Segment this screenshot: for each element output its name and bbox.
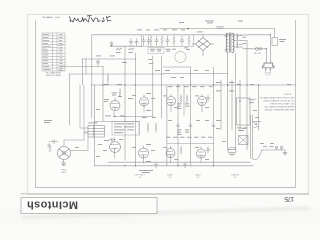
svg-text:3A FUSE: 3A FUSE [254, 52, 262, 55]
wire v-left a [69, 74, 71, 125]
transformer T1 aux windings [236, 34, 238, 48]
capacitor C3 [97, 59, 99, 62]
wire filter left stub [128, 45, 142, 47]
resistor R15 (hanging) [147, 123, 157, 132]
wire v-left e [93, 85, 95, 166]
scattered small value labels [96, 59, 291, 160]
wire switch drop [274, 29, 276, 38]
wire output line [262, 149, 285, 151]
wire B+ top bus [92, 34, 234, 36]
svg-text:RESISTORS 1/2 WATT 10%: RESISTORS 1/2 WATT 10% [271, 103, 295, 106]
svg-text:McIntosh: McIntosh [27, 198, 78, 210]
wire rail 7 [231, 80, 233, 130]
node junction dot [187, 28, 189, 30]
box bias sub [148, 48, 164, 54]
wire ground bus [108, 161, 250, 163]
book page (footer sheet, rotated 180 relative content) [20, 194, 310, 217]
tube V10 rectifier envelope (faint) [175, 51, 186, 62]
wire driver row [163, 66, 191, 68]
resistor R41 [161, 36, 163, 38]
svg-text:V-1: V-1 [139, 177, 142, 179]
resistor R23 [180, 146, 182, 148]
node dot cathode [114, 116, 115, 117]
caption under mid section [139, 170, 153, 173]
svg-text:NOTES:: NOTES: [284, 94, 292, 96]
tube V1 triode [110, 101, 120, 111]
node junction dot 3 [227, 84, 229, 86]
McIntosh title box (upside-down book footer) [21, 198, 157, 214]
wire rail 9 [239, 80, 241, 130]
wire v-mid a [124, 46, 126, 160]
switch S1 [272, 38, 278, 46]
speaker terminal B [280, 146, 283, 149]
wire bridge stubs [202, 35, 204, 56]
table row entries (illegible scan text) [43, 34, 63, 70]
wire AC drop 2 [269, 35, 271, 63]
capacitor C15 [155, 162, 157, 165]
capacitor C10 [207, 95, 209, 98]
wire rail 3 [190, 67, 192, 166]
wire V1 plate row [82, 58, 136, 60]
tube V3 triode [140, 97, 149, 106]
output transformer T2 [237, 98, 251, 125]
capacitor C16 [184, 162, 186, 165]
wire AC drop to plug [265, 49, 267, 63]
wire v-left c [85, 59, 87, 75]
bridge rectifier CR1 [192, 38, 214, 51]
schematic frame border [36, 20, 296, 188]
resistor R16 (hanging) [155, 123, 157, 125]
wire grid line row2 [167, 143, 214, 145]
svg-text:LINE VOLTAGE AT 117V AC 60 CYC: LINE VOLTAGE AT 117V AC 60 CYC [263, 99, 295, 102]
tube V5 output [167, 97, 176, 106]
label R1 R2 [116, 51, 133, 54]
antenna style input symbol [110, 42, 134, 51]
resistor R8 [107, 74, 109, 76]
capacitor C11 [207, 147, 209, 150]
tube V9 bias rectifier [228, 147, 236, 155]
wire drop to strip b [83, 85, 85, 132]
filter row value labels [137, 30, 190, 52]
svg-text:JACK: JACK [62, 171, 68, 174]
capacitor C2 (at V2 grid) [49, 141, 53, 143]
capacitor C21 [148, 36, 150, 40]
capacitor C24 [181, 36, 183, 40]
wire rail 8 [235, 53, 237, 150]
resistor R30 (right of bus) [249, 99, 256, 101]
svg-text:V-4: V-4 [197, 177, 200, 179]
schematic sheet [28, 14, 308, 194]
transformer T1 core [226, 33, 234, 53]
labels above rectifier [179, 21, 243, 33]
wire v-mid d [152, 56, 154, 118]
transformer T1 secondary winding [233, 33, 234, 52]
wire left sub [60, 65, 103, 67]
wire T1 secondary taps [234, 34, 247, 36]
tube V8 output [197, 149, 206, 158]
label stacks between driver tubes [168, 104, 209, 135]
wire strip link a [80, 127, 88, 129]
resistor R21 [180, 95, 182, 97]
wire rail 6 [227, 53, 229, 150]
node dot plug line 2 [270, 34, 271, 35]
tube V2 triode [110, 142, 121, 153]
wire rail 2 [183, 85, 185, 115]
wire AC line to plug [247, 34, 270, 36]
wire rail 10 [246, 41, 248, 151]
wire v-left f [102, 66, 104, 121]
resistor R2 [129, 48, 135, 50]
wire v-left b [81, 59, 83, 85]
wire AC line upper [160, 28, 275, 30]
output line labels [263, 145, 274, 148]
capacitor C23 [167, 36, 169, 40]
resistor R40 [150, 36, 152, 38]
label R30 [249, 101, 254, 104]
wire cathode link [115, 116, 153, 118]
svg-text:VOLTAGES READ WITH VTVM TO GND: VOLTAGES READ WITH VTVM TO GND [260, 96, 295, 99]
parts/voltage table [42, 33, 65, 71]
transformer T1 primary winding [226, 33, 228, 52]
pencil dashes [47, 16, 52, 18]
wire v-mid c [138, 121, 140, 135]
tube V6 output [198, 97, 207, 106]
input terminal strip [88, 126, 105, 138]
cathode stubs under output tubes [114, 106, 202, 164]
box filter row [142, 35, 194, 47]
resistor R22 [186, 95, 188, 97]
wire v-mid b [135, 53, 137, 166]
wire squiggle to terminals [252, 150, 262, 160]
wire driver row 2 [163, 73, 228, 75]
tube V7 output [166, 149, 175, 158]
capacitor C4 marks above V1 [112, 93, 118, 96]
tube V4 triode [139, 148, 149, 158]
wire v-mid e [160, 56, 162, 118]
wire bottom bus [94, 165, 253, 167]
mid value labels row (470K etc) [166, 82, 241, 138]
capacitor ticks on rails [177, 125, 216, 126]
capacitor C22 [156, 36, 158, 40]
resistor R1 [116, 48, 122, 50]
OT secondary labels [237, 128, 248, 131]
svg-text:175: 175 [284, 195, 294, 202]
wire drop to strip a [79, 85, 81, 128]
resistor R9 [119, 89, 121, 91]
resistor R42 [173, 36, 175, 38]
capacitor C20 [143, 36, 145, 40]
speaker terminal A [252, 146, 288, 160]
svg-text:SHOULD CHART: SHOULD CHART [46, 74, 63, 77]
svg-text:V-9: V-9 [234, 177, 237, 179]
node junction dot 2 [239, 100, 241, 102]
svg-text:UNLESS OTHERWISE SPECIFIED: UNLESS OTHERWISE SPECIFIED [264, 110, 295, 112]
wire rail 4 [213, 67, 215, 166]
handwritten note "It's McIntosh" (rotated 180) [70, 15, 112, 22]
svg-text:V-3: V-3 [169, 177, 172, 179]
wire grid row top left [110, 45, 142, 47]
fuse F1 [255, 47, 261, 50]
svg-text:60 CY: 60 CY [266, 75, 272, 77]
capacitor C5 (V2 top) [109, 139, 112, 141]
wire rail 5 [220, 80, 222, 130]
node dot plug line [266, 48, 267, 49]
footer: sheet bottom edge over book page [21, 193, 309, 195]
capacitor C18 [128, 39, 142, 47]
box feedback network [112, 122, 139, 136]
resistor R5 (J1 left) [49, 146, 51, 152]
label input strip [89, 122, 98, 125]
wire v-mid f [166, 85, 168, 166]
resistor R43 [188, 36, 190, 38]
wire long feed [70, 73, 164, 75]
wire strip link b [84, 131, 88, 133]
junction cluster arrows [253, 122, 261, 128]
wire J1 to strip [49, 133, 88, 152]
ground (under J1) [63, 160, 65, 164]
node dots on mid bus [102, 84, 259, 166]
wire v-left d [91, 35, 93, 118]
input connector J1 [58, 147, 71, 160]
connector strip box with X [239, 136, 249, 145]
svg-text:ALL CAPACITOR VALUES IN MFD: ALL CAPACITOR VALUES IN MFD [265, 106, 295, 109]
AC plug P1 [263, 63, 275, 71]
capacitor C6 small (left of V2) [48, 144, 50, 146]
small hanging components on bottom bus [154, 162, 186, 168]
svg-text:MA-230 E-1: MA-230 E-1 [42, 16, 54, 19]
ground (output) [284, 150, 286, 153]
small labels scattered [44, 56, 170, 162]
wire fuse line [243, 48, 266, 50]
capacitor C19 [136, 39, 138, 42]
wire mid bus [91, 84, 296, 86]
wire rail 11 [258, 85, 260, 130]
wire rail 1 [177, 85, 179, 166]
wire OT winding pair [250, 115, 252, 158]
wire coupling row [94, 120, 139, 122]
T1 tap labels [243, 37, 247, 44]
